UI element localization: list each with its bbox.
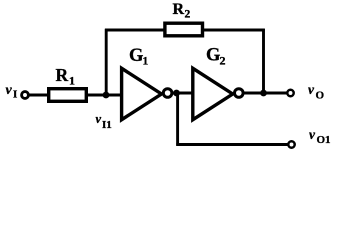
wire: left feedback riser	[105, 29, 108, 95]
wire: G2 output to vO terminal	[243, 92, 288, 95]
inverter G1 output bubble	[163, 89, 172, 98]
label G1	[129, 46, 149, 68]
wire: top feedback right segment	[202, 29, 265, 32]
label R2	[173, 1, 191, 21]
svg-text:1: 1	[143, 56, 149, 68]
svg-text:v: v	[96, 112, 102, 126]
wire: input lead from vI terminal to R1	[28, 94, 48, 97]
terminal vO	[287, 90, 293, 96]
label G2	[206, 46, 226, 68]
junction dot at feedback takeoff	[260, 90, 267, 97]
label vI1	[96, 112, 112, 131]
resistor R2	[165, 23, 203, 36]
svg-text:1: 1	[69, 74, 75, 88]
svg-text:I: I	[13, 89, 17, 101]
junction dot between G1 and G2	[173, 90, 180, 97]
svg-text:v: v	[6, 83, 13, 98]
wire: top feedback left segment	[105, 29, 165, 32]
wire: drop from junction to vO1 line	[176, 93, 179, 146]
label vO1	[309, 127, 331, 146]
inverter G2 triangle	[193, 68, 233, 119]
svg-text:2: 2	[185, 9, 191, 21]
label vI	[6, 83, 18, 101]
svg-text:R: R	[173, 1, 185, 18]
svg-text:2: 2	[220, 54, 226, 68]
svg-text:R: R	[56, 65, 69, 85]
label R1	[56, 65, 76, 88]
svg-text:I1: I1	[102, 119, 112, 131]
svg-text:G: G	[206, 46, 220, 66]
wire: right feedback drop	[262, 29, 265, 93]
resistor R1	[49, 89, 87, 102]
svg-text:v: v	[309, 127, 316, 142]
terminal vO1	[288, 141, 294, 147]
node vI1 junction dot	[103, 92, 110, 99]
svg-text:O: O	[316, 90, 325, 102]
svg-text:G: G	[129, 46, 143, 66]
wire: R1 to G1 input through node vI1	[87, 94, 122, 97]
label vO	[308, 82, 325, 102]
wire: vO1 line	[176, 143, 288, 146]
wire: G1 bubble to G2 input	[172, 92, 193, 95]
svg-text:O1: O1	[317, 134, 331, 146]
inverter G1 triangle	[122, 68, 162, 119]
terminal vI	[22, 92, 29, 99]
inverter G2 output bubble	[235, 89, 244, 98]
svg-text:v: v	[308, 82, 315, 97]
